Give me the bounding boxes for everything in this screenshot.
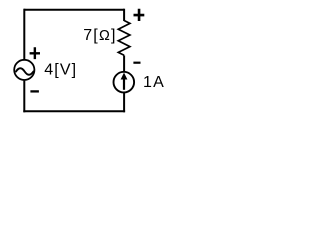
resistor plus marker (134, 9, 145, 21)
voltage source minus marker (30, 90, 39, 92)
wire right upper (123, 9, 125, 21)
wire left lower (23, 81, 25, 113)
voltage source plus marker (30, 47, 40, 59)
wire bottom (23, 110, 125, 112)
wire left upper (23, 9, 25, 60)
voltage source V1 circle (14, 60, 34, 80)
wire right lower (123, 93, 125, 112)
svg-text:1A: 1A (143, 74, 165, 91)
current source arrow head (121, 73, 128, 80)
wire right middle (123, 55, 125, 71)
voltage source V1 sine (16, 68, 33, 75)
current source I1 circle (114, 72, 135, 93)
resistor R zigzag (118, 21, 130, 56)
resistor minus marker (133, 62, 140, 64)
svg-text:4[V]: 4[V] (44, 62, 77, 79)
svg-text:7[Ω]: 7[Ω] (83, 27, 116, 44)
wire top (24, 9, 124, 11)
current source arrow shaft (123, 79, 125, 90)
